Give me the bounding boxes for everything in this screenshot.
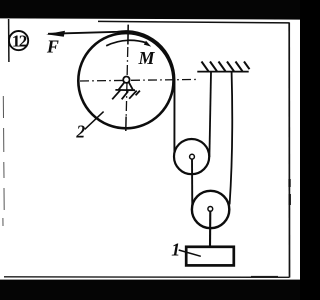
rope from ceiling to pulley 4 [230, 72, 233, 204]
pin support base line [115, 89, 135, 91]
black bottom margin bar [0, 280, 300, 300]
svg-text:2: 2 [75, 122, 85, 142]
pulley 4 axle hub [208, 207, 213, 212]
pulley 3 axle hub [190, 154, 195, 159]
pulley 2 vertical centerline top tick [127, 25, 129, 45]
hanger rod from pulley 3 axle [191, 157, 193, 210]
pulley 2 vertical centerline bottom tick [125, 117, 127, 132]
label 1 leader line [179, 250, 201, 256]
ceiling line [197, 71, 248, 73]
page left edge line [8, 19, 10, 62]
page frame top line [98, 21, 290, 23]
pulley 2 vertical centerline [126, 47, 128, 116]
page frame right line [288, 23, 290, 278]
force F arrowhead [46, 31, 65, 37]
pulley 3 wheel [174, 139, 209, 174]
black top margin bar [0, 0, 300, 20]
load block 1 [186, 247, 234, 266]
moment M arc arrow [106, 40, 147, 46]
right frame ink blotch [288, 179, 290, 187]
pin support triangle [119, 82, 133, 89]
pulley 2 wheel [78, 33, 173, 128]
svg-text:F: F [46, 37, 59, 57]
ceiling hatching [202, 62, 250, 72]
page left edge marks [3, 96, 4, 226]
pin support hatching [112, 90, 140, 99]
rope from ceiling to pulley 3 [209, 72, 211, 157]
pivot pin of pulley 2 [123, 77, 129, 83]
moment M arc arrowhead [144, 41, 151, 47]
pulley 2 horizontal centerline [80, 79, 199, 81]
label 2 leader line [85, 112, 104, 130]
problem number badge circle [9, 31, 28, 50]
svg-text:12: 12 [12, 31, 27, 50]
hanger rod from pulley 4 axle to load [209, 209, 211, 248]
bottom frame ink blotch [251, 276, 278, 278]
svg-text:M: M [138, 48, 156, 68]
rope over pulley 2 with force line [48, 31, 175, 157]
page frame bottom line [4, 276, 289, 279]
pulley 4 wheel [192, 191, 229, 228]
